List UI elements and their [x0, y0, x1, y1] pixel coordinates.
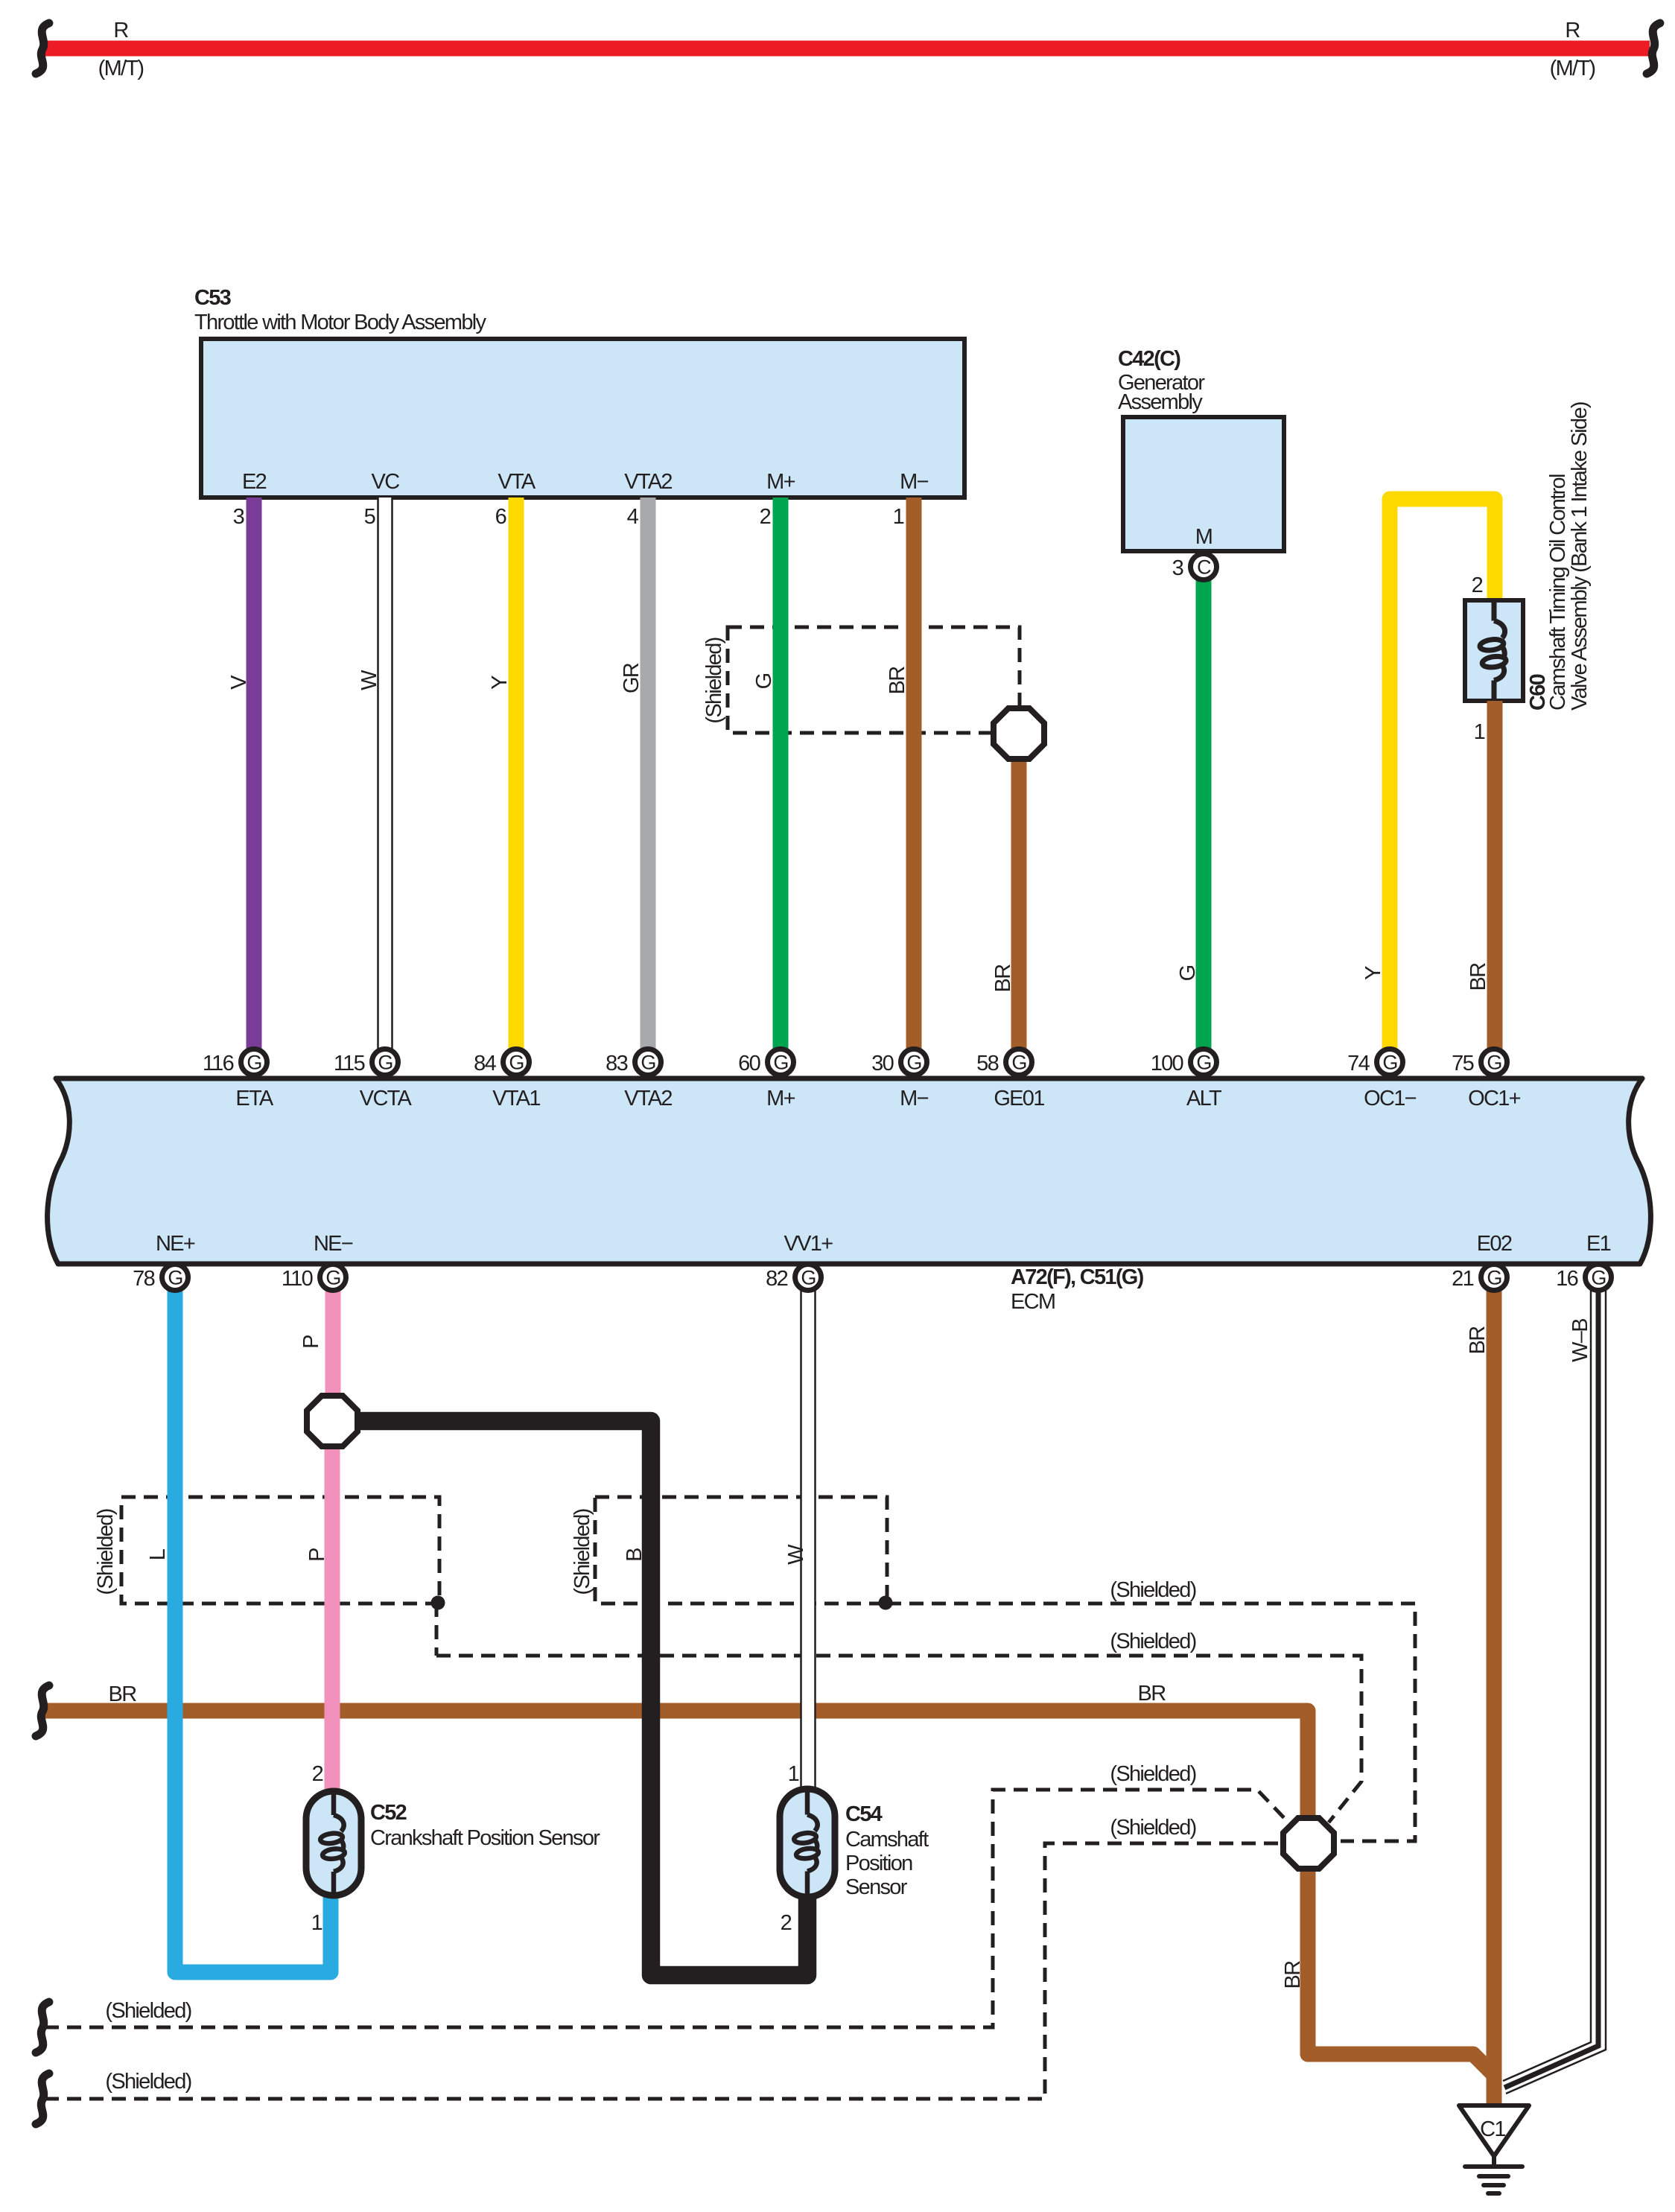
wire GR (C53 VTA2 pin4 to ECM VTA2 83)	[641, 498, 656, 1063]
svg-text:115: 115	[334, 1052, 365, 1075]
svg-text:84: 84	[474, 1052, 496, 1075]
svg-text:(Shielded): (Shielded)	[94, 1509, 118, 1595]
svg-text:C: C	[1197, 556, 1211, 579]
svg-text:1: 1	[1474, 720, 1485, 744]
pin 75 G (OC1+)	[1452, 1049, 1507, 1076]
wire V (C53 E2 pin3 to ECM ETA 116)	[247, 498, 262, 1063]
svg-text:100: 100	[1151, 1052, 1183, 1075]
svg-text:4: 4	[627, 505, 639, 529]
svg-text:M: M	[1195, 525, 1212, 549]
shield box around L and P wires (dashed)	[94, 1497, 439, 1604]
svg-text:6: 6	[495, 505, 506, 529]
svg-text:ALT: ALT	[1186, 1087, 1222, 1110]
ECM A72(F), C51(G) band	[48, 1078, 1651, 1264]
svg-text:VC: VC	[372, 470, 400, 494]
svg-text:E2: E2	[242, 470, 267, 494]
svg-text:58: 58	[976, 1052, 998, 1075]
svg-text:2: 2	[781, 1911, 792, 1935]
svg-text:R: R	[113, 19, 128, 42]
svg-text:1: 1	[788, 1762, 799, 1786]
svg-text:M+: M+	[766, 470, 795, 494]
svg-text:(Shielded): (Shielded)	[105, 1999, 191, 2023]
svg-text:(M/T): (M/T)	[98, 57, 144, 80]
svg-text:OC1−: OC1−	[1364, 1087, 1417, 1110]
svg-text:(Shielded): (Shielded)	[1110, 1578, 1195, 1602]
svg-text:VTA: VTA	[498, 470, 536, 494]
wire Y (ECM OC1- 74 up and over to C60 pin2)	[1390, 499, 1495, 1063]
svg-text:82: 82	[766, 1267, 787, 1291]
svg-text:2: 2	[312, 1762, 323, 1786]
pin 84 G (VTA1)	[474, 1049, 529, 1076]
svg-text:30: 30	[871, 1052, 893, 1075]
shield box around G and BR wires (dashed)	[702, 627, 1020, 733]
shield dashed line A (B/W shield to splice)	[887, 1578, 1415, 1841]
svg-text:E02: E02	[1477, 1232, 1512, 1256]
pin 78 G (NE+)	[133, 1265, 188, 1291]
svg-text:BR: BR	[1466, 963, 1490, 991]
wire BR (engine ground branch, horizontal)	[44, 1711, 1494, 2075]
svg-text:16: 16	[1556, 1267, 1577, 1291]
svg-text:(Shielded): (Shielded)	[105, 2070, 191, 2094]
svg-text:P: P	[299, 1335, 323, 1349]
svg-text:2: 2	[760, 505, 771, 529]
svg-text:(Shielded): (Shielded)	[702, 638, 726, 723]
wire Y (C53 VTA pin6 to ECM VTA1 84)	[509, 498, 524, 1063]
svg-text:L: L	[146, 1548, 170, 1560]
svg-text:BR: BR	[109, 1682, 137, 1706]
wire B (splice to C54 pin2)	[354, 1421, 807, 1975]
connector C53 Throttle with Motor Body Assembly	[194, 286, 964, 498]
break symbol left of shield line C	[36, 2002, 49, 2053]
svg-text:(Shielded): (Shielded)	[570, 1509, 594, 1595]
svg-text:VTA2: VTA2	[624, 1087, 672, 1110]
svg-text:W–B: W–B	[1568, 1319, 1592, 1362]
wire R (red, M/T)	[44, 41, 1650, 57]
break symbol left of shield line D	[36, 2073, 49, 2124]
svg-text:Valve Assembly (Bank 1 Intake: Valve Assembly (Bank 1 Intake Side)	[1568, 402, 1592, 711]
pin 115 G (VCTA)	[334, 1049, 398, 1076]
ground C1	[1459, 2105, 1529, 2193]
splice octagon on NE- wire	[307, 1396, 357, 1446]
svg-text:C42(C): C42(C)	[1118, 347, 1180, 371]
svg-text:C1: C1	[1480, 2117, 1505, 2141]
wire W (ECM VV1+ 82 to C54 pin1)	[801, 1277, 816, 1789]
svg-text:BR: BR	[1466, 1326, 1490, 1355]
svg-text:3: 3	[233, 505, 244, 529]
svg-text:83: 83	[606, 1052, 627, 1075]
svg-text:75: 75	[1452, 1052, 1473, 1075]
svg-text:110: 110	[282, 1267, 313, 1291]
svg-text:1: 1	[311, 1911, 322, 1935]
wire G (C53 M+ pin2 to ECM M+ 60)	[773, 498, 789, 1063]
pin 110 G (NE-)	[282, 1265, 346, 1291]
svg-text:R: R	[1565, 19, 1580, 42]
svg-text:BR: BR	[991, 964, 1015, 993]
svg-text:W: W	[784, 1544, 808, 1565]
shield dashed line C (left run to splice)	[45, 1762, 1289, 2027]
svg-text:Assembly: Assembly	[1118, 390, 1203, 414]
svg-text:78: 78	[133, 1267, 154, 1291]
wire L (ECM NE+ 78 to C52 pin1)	[175, 1277, 331, 1972]
sensor C52 Crankshaft Position Sensor	[306, 1791, 600, 1895]
connector C42(C) Generator Assembly	[1118, 347, 1284, 551]
svg-text:NE+: NE+	[156, 1232, 195, 1256]
svg-text:Sensor: Sensor	[845, 1875, 908, 1899]
wire G (C42 M pin3 to ECM ALT 100)	[1196, 564, 1212, 1063]
svg-text:(M/T): (M/T)	[1550, 57, 1595, 80]
svg-text:(Shielded): (Shielded)	[1110, 1762, 1195, 1786]
svg-text:Crankshaft Position Sensor: Crankshaft Position Sensor	[370, 1826, 600, 1850]
svg-text:OC1+: OC1+	[1468, 1087, 1521, 1110]
svg-text:21: 21	[1452, 1267, 1473, 1291]
valve C60 Camshaft Timing Oil Control Valve Assembly	[1465, 402, 1592, 711]
break symbol left of wire R	[36, 23, 49, 74]
svg-text:60: 60	[738, 1052, 760, 1075]
pin 82 G (VV1+)	[766, 1265, 821, 1291]
svg-text:(Shielded): (Shielded)	[1110, 1630, 1195, 1653]
shield dashed line D (left run to splice)	[45, 1816, 1280, 2099]
svg-text:116: 116	[203, 1052, 234, 1075]
svg-text:B: B	[623, 1548, 646, 1562]
svg-text:1: 1	[893, 505, 904, 529]
wire W (C53 VC pin5 to ECM VCTA 115)	[378, 498, 393, 1063]
pin 83 G (VTA2)	[606, 1049, 661, 1076]
svg-text:V: V	[227, 675, 251, 690]
svg-text:GE01: GE01	[994, 1087, 1044, 1110]
svg-text:BR: BR	[886, 667, 909, 695]
svg-text:G: G	[752, 673, 776, 689]
svg-text:C54: C54	[845, 1802, 883, 1826]
svg-text:Y: Y	[488, 676, 512, 690]
svg-text:VTA1: VTA1	[492, 1087, 540, 1110]
svg-text:3: 3	[1172, 556, 1183, 580]
wire BR (C53 M- pin1 to ECM M- 30)	[906, 498, 922, 1063]
svg-text:Camshaft Timing Oil Control: Camshaft Timing Oil Control	[1546, 474, 1570, 711]
svg-text:GR: GR	[620, 663, 643, 693]
svg-text:P: P	[305, 1548, 329, 1562]
shield drain link from dot down	[435, 1603, 439, 1656]
wire BR (ECM E02 21 to ground C1)	[1487, 1277, 1502, 2106]
svg-text:BR: BR	[1281, 1961, 1305, 1989]
svg-text:Throttle with Motor Body Assem: Throttle with Motor Body Assembly	[194, 311, 487, 334]
svg-text:M−: M−	[900, 1087, 928, 1110]
pin 100 G (ALT)	[1151, 1049, 1217, 1076]
sensor C54 Camshaft Position Sensor	[780, 1789, 929, 1899]
splice octagon on ground branch	[1283, 1818, 1334, 1869]
svg-text:W: W	[357, 670, 381, 690]
pin 3 circle C of C42	[1172, 554, 1217, 581]
svg-text:Camshaft: Camshaft	[845, 1828, 929, 1852]
wire W-B (ECM E1 16 to ground C1)	[1503, 1277, 1606, 2094]
svg-text:BR: BR	[1138, 1682, 1166, 1706]
shield box around B and W wires (dashed)	[570, 1497, 887, 1604]
svg-text:E1: E1	[1586, 1232, 1611, 1256]
svg-text:A72(F), C51(G): A72(F), C51(G)	[1011, 1265, 1144, 1289]
svg-text:5: 5	[364, 505, 375, 529]
svg-text:ECM: ECM	[1011, 1290, 1055, 1314]
pin 60 G (M+)	[738, 1049, 793, 1076]
junction dot on shield box L/P	[431, 1596, 445, 1610]
break symbol right of wire R	[1647, 23, 1660, 74]
pin 16 G (E1)	[1556, 1265, 1611, 1291]
svg-text:G: G	[1176, 965, 1200, 981]
svg-text:M−: M−	[900, 470, 928, 494]
svg-text:Y: Y	[1361, 966, 1385, 980]
svg-text:M+: M+	[766, 1087, 795, 1110]
pin 116 G (ETA)	[203, 1049, 267, 1076]
svg-text:C53: C53	[194, 286, 232, 310]
wire BR (splice to ECM GE01 58)	[1011, 745, 1027, 1063]
wire P (ECM NE- 110 to C52 pin2)	[332, 1277, 333, 1791]
break symbol left of wire BR	[36, 1685, 49, 1736]
svg-text:Position: Position	[845, 1852, 912, 1875]
junction dot on shield box B/W	[879, 1596, 893, 1610]
pin 58 G (GE01)	[976, 1049, 1032, 1076]
svg-text:74: 74	[1347, 1052, 1370, 1075]
svg-text:VCTA: VCTA	[360, 1087, 413, 1110]
pin 74 G (OC1-)	[1347, 1049, 1402, 1076]
wire BR (C60 pin1 to ECM OC1+ 75)	[1487, 701, 1503, 1063]
svg-text:C52: C52	[370, 1801, 407, 1825]
svg-text:2: 2	[1472, 573, 1483, 597]
svg-text:NE−: NE−	[314, 1232, 353, 1256]
pin 30 G (M-)	[871, 1049, 927, 1076]
svg-text:(Shielded): (Shielded)	[1110, 1816, 1195, 1840]
pin 21 G (E02)	[1452, 1265, 1507, 1291]
shield dashed line B (L/P shield to splice)	[436, 1630, 1361, 1822]
svg-text:VTA2: VTA2	[624, 470, 672, 494]
splice octagon on GE01 shield drain	[994, 708, 1044, 759]
svg-text:VV1+: VV1+	[784, 1232, 833, 1256]
svg-text:ETA: ETA	[235, 1087, 274, 1110]
